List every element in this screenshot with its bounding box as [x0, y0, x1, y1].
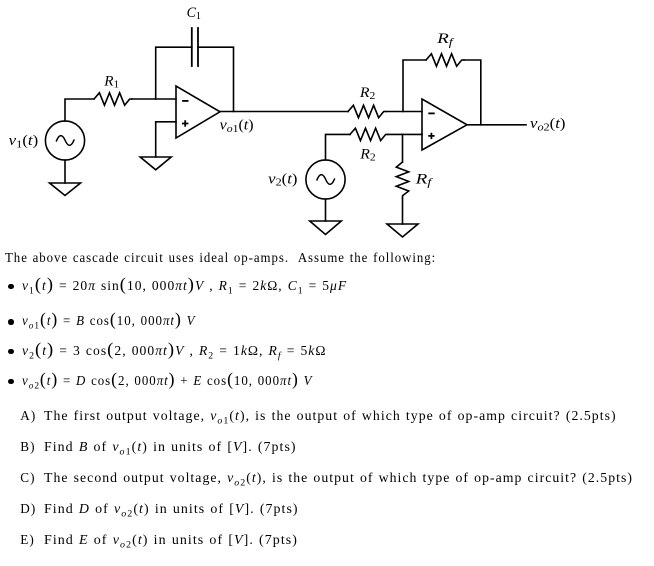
svg-text:v2(t): v2(t): [268, 171, 297, 188]
item B: [44, 439, 297, 454]
item B letter: [20, 439, 35, 454]
bullet line 3: [22, 343, 326, 358]
resistor Rf feedback: [426, 54, 464, 66]
wire Rf shunt to ground: [402, 199, 404, 224]
wire junction down to Rf shunt: [402, 134, 404, 162]
U2 plus sign: [429, 134, 434, 139]
svg-text:vo2(t): vo2(t): [530, 116, 566, 133]
wire v2 to R2 bottom: [326, 134, 351, 160]
svg-text:R2: R2: [359, 85, 375, 102]
svg-text:vo1(t): vo1(t): [220, 118, 254, 135]
U2 minus sign: [429, 112, 434, 114]
ground at U1 plus input: [140, 157, 171, 170]
svg-text:Rf: Rf: [414, 172, 433, 189]
feedback node wire up from inverting input: [156, 47, 192, 99]
feedback wire up from U2 inverting input: [403, 60, 426, 112]
bullet 3 marker: [8, 349, 13, 354]
bullet 4 marker: [8, 379, 13, 384]
item C: [44, 470, 633, 485]
bullet 2 marker: [8, 319, 13, 324]
source v2: [306, 160, 345, 199]
item C letter: [20, 470, 35, 485]
svg-text:C1: C1: [187, 5, 201, 22]
svg-text:R2: R2: [359, 146, 375, 163]
output wire vo1: [220, 111, 348, 113]
wire v2 bottom to ground: [325, 199, 327, 221]
bullet line 2: [22, 313, 195, 328]
wire R2 bottom to U2 plus input: [388, 133, 422, 135]
wire R2 to op-amp U2 inverting input: [386, 111, 422, 113]
svg-text:Rf: Rf: [436, 31, 455, 48]
wire Rf to U2 output: [464, 60, 481, 125]
source v1: [45, 121, 84, 160]
op-amp U2: [422, 99, 467, 150]
sine symbol of v2: [317, 175, 335, 185]
output wire vo2: [467, 124, 526, 126]
wire C1 right plate to output: [198, 47, 234, 111]
U1 minus sign: [183, 100, 188, 102]
item A: [44, 408, 617, 423]
item A letter: [20, 408, 36, 423]
wire v1 bottom to ground: [64, 160, 66, 183]
op-amp U1: [176, 86, 220, 138]
ground under v1: [50, 183, 81, 196]
resistor R2 bottom: [350, 128, 388, 140]
resistor Rf shunt: [396, 162, 408, 198]
ground under Rf shunt: [387, 224, 418, 237]
sine symbol of v1: [56, 136, 74, 146]
paragraph: intro line: [5, 250, 436, 265]
bullet line 1: [22, 278, 347, 293]
wire U1 plus input to ground: [156, 122, 176, 157]
wire R1 to op-amp U1 inverting input: [132, 98, 176, 100]
item D letter: [20, 501, 36, 516]
svg-text:v1(t): v1(t): [9, 133, 39, 150]
resistor R1: [94, 93, 132, 105]
U1 plus sign: [183, 121, 188, 126]
wire v1 top to R1: [65, 99, 94, 121]
resistor R2 top: [348, 105, 386, 117]
capacitor C1 left plate: [191, 28, 193, 66]
ground under v2: [310, 221, 342, 235]
bullet line 4: [22, 373, 313, 388]
svg-text:R1: R1: [103, 74, 119, 91]
bullet 1 marker: [8, 284, 13, 289]
item E: [44, 532, 298, 547]
item D: [44, 501, 299, 516]
item E letter: [20, 532, 34, 547]
capacitor C1 right plate: [197, 28, 199, 66]
